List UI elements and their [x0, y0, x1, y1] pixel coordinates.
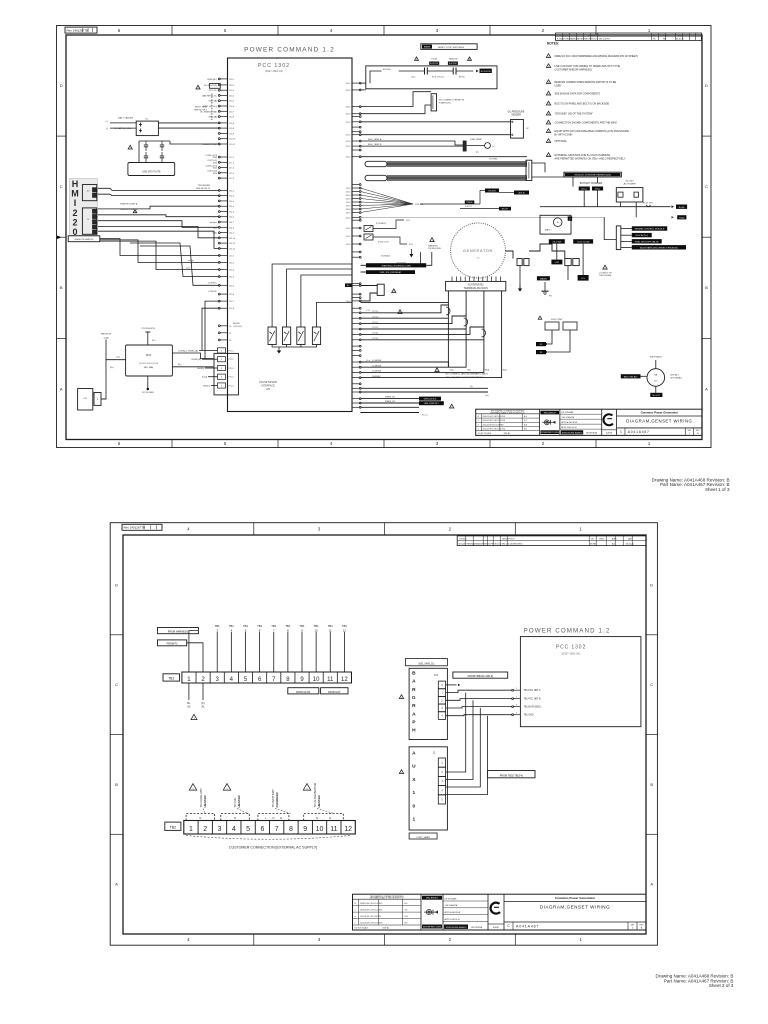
svg-text:(1) 627-4 W1(1,2,3): (1) 627-4 W1(1,2,3) — [139, 363, 158, 365]
wire from-harness to TB1 cell1 — [189, 631, 199, 672]
svg-text:B: B — [115, 782, 118, 787]
svg-text:(-): (-) — [106, 128, 108, 130]
bus wire label box — [499, 207, 511, 211]
svg-text:J17-4: J17-4 — [229, 173, 235, 175]
svg-text:(PCN OUT): (PCN OUT) — [378, 242, 389, 244]
wire alternator stem down — [655, 386, 657, 393]
svg-text:Rev 1401267TB: Rev 1401267TB — [67, 28, 89, 32]
dark pin tag B+_CB — [345, 283, 352, 287]
svg-text:1: 1 — [412, 817, 415, 823]
B+ bus wire — [540, 206, 671, 208]
down arrow at BCM — [409, 254, 413, 257]
svg-text:8: 8 — [287, 628, 289, 632]
triangle note engine senders — [603, 265, 608, 269]
svg-text:B(-): B(-) — [178, 364, 182, 366]
svg-text:J17-5: J17-5 — [229, 178, 235, 180]
label box TB2 — [165, 822, 181, 830]
svg-text:Cummins Power Generation: Cummins Power Generation — [641, 411, 679, 415]
svg-text:J20-8: J20-8 — [229, 117, 235, 119]
svg-text:B+(p): B+(p) — [202, 377, 207, 379]
svg-text:THE ENGINE: THE ENGINE — [599, 275, 612, 277]
svg-text:(B+): (B+) — [412, 77, 416, 79]
label box FROM AUX — [288, 688, 319, 694]
PCC right pin B+ bus — [352, 216, 360, 218]
svg-text:(4): (4) — [470, 386, 473, 388]
svg-text:J24-6: J24-6 — [229, 217, 235, 219]
revision table (sheet1 top right) — [556, 33, 702, 40]
wire DCN output A — [172, 353, 213, 359]
svg-text:DO1: DO1 — [406, 220, 411, 222]
svg-text:12V: 12V — [654, 381, 658, 383]
svg-text:CUST+(DO): CUST+(DO) — [206, 165, 218, 167]
company name header — [504, 901, 646, 903]
svg-text:5: 5 — [221, 386, 223, 388]
svg-text:B13: B13 — [213, 173, 218, 175]
svg-text:1: 1 — [648, 28, 651, 33]
svg-text:STARTER(+) SOLENOID CONN: STARTER(+) SOLENOID CONN — [382, 264, 412, 267]
svg-text:J26-9: J26-9 — [345, 213, 351, 215]
svg-text:R.M: R.M — [524, 424, 528, 426]
svg-text:GENCY STOP SWITCHES: GENCY STOP SWITCHES — [438, 47, 465, 49]
triangle note at HMI wires — [133, 210, 137, 213]
dark label GEN J-B VIO — [419, 397, 441, 401]
svg-text:CUSTOMER AND/OR HARNESS): CUSTOMER AND/OR HARNESS) — [555, 69, 592, 72]
svg-text:WITH RADIO: WITH RADIO — [650, 356, 663, 359]
svg-text:H: H — [72, 179, 79, 189]
svg-text:E: E — [329, 816, 331, 820]
arrow label fuel 1 — [546, 343, 548, 345]
wire J24 pin6 stub — [446, 684, 457, 686]
svg-text:8: 8 — [289, 826, 293, 833]
svg-text:J24-10: J24-10 — [229, 238, 236, 240]
svg-text:12: 12 — [341, 677, 348, 683]
battery charging alternator symbol — [647, 369, 665, 387]
svg-text:C: C — [620, 430, 623, 434]
svg-text:N: N — [199, 816, 201, 820]
svg-text:J24-8: J24-8 — [229, 227, 235, 229]
svg-text:ld(4): ld(4) — [213, 233, 218, 235]
svg-text:A: A — [705, 386, 708, 391]
svg-text:TB1: TB1 — [215, 624, 220, 628]
remote e-stop enclosure box — [366, 66, 497, 89]
note 3 triangle — [546, 80, 550, 84]
title block bottom row — [617, 427, 702, 429]
svg-text:TB1 PCC NET B: TB1 PCC NET B — [524, 699, 542, 701]
svg-text:B+(A): B+(A) — [679, 206, 685, 209]
svg-text:1: 1 — [189, 826, 193, 833]
spare output wires — [361, 387, 489, 389]
svg-text:A: A — [412, 751, 416, 757]
svg-text:GND (A): GND (A) — [209, 116, 218, 119]
svg-text:3: 3 — [516, 705, 517, 707]
PCC right pins alternator groups — [352, 312, 361, 379]
svg-text:2010-04 SH 2 ECO-58 REV: 2010-04 SH 2 ECO-58 REV — [360, 916, 382, 918]
svg-text:J20-5: J20-5 — [229, 101, 235, 103]
svg-text:J20-7: J20-7 — [229, 111, 235, 113]
svg-text:J19-3: J19-3 — [345, 244, 351, 246]
svg-text:RM: RM — [663, 39, 666, 41]
PCC right pins engine temp — [352, 140, 360, 142]
dark label low oil — [551, 260, 562, 265]
svg-text:A041A467: A041A467 — [516, 924, 539, 928]
svg-text:J20-1: J20-1 — [229, 79, 235, 81]
vertical wires from relay area up — [420, 252, 422, 265]
svg-text:Rev 1401267TB: Rev 1401267TB — [124, 526, 146, 530]
svg-text:PLC-1: PLC-1 — [422, 414, 429, 416]
svg-text:J24-11: J24-11 — [229, 243, 236, 245]
svg-text:"GROUND" (-B) OF THE SYSTEM": "GROUND" (-B) OF THE SYSTEM" — [555, 113, 594, 116]
svg-text:Sheet 2 of 3: Sheet 2 of 3 — [709, 983, 734, 988]
svg-text:COOL LVL SW: COOL LVL SW — [577, 242, 590, 244]
svg-text:RS485+(A): RS485+(A) — [188, 349, 198, 352]
svg-text:B+OUT: B+OUT — [653, 395, 661, 397]
svg-text:A: A — [115, 882, 118, 887]
dashed group brackets over TB2 — [186, 814, 343, 821]
svg-text:(B01_0488_01): (B01_0488_01) — [419, 663, 435, 665]
svg-text:B: B — [478, 416, 480, 418]
svg-text:TERMINAL BLOCKS: TERMINAL BLOCKS — [464, 286, 489, 290]
svg-text:N: N — [272, 816, 274, 820]
svg-text:AC POWER: AC POWER — [624, 183, 636, 186]
wire capacitor top rail — [139, 140, 170, 142]
svg-text:B: B — [60, 285, 63, 290]
warning triangle note 1 at J20 — [196, 85, 200, 89]
svg-text:GEN J-PWR RLY: GEN J-PWR RLY — [424, 403, 439, 405]
svg-text:CHKD: CHKD — [599, 539, 605, 541]
svg-text:(+): (+) — [106, 121, 109, 123]
svg-text:APPD A.GEORGE: APPD A.GEORGE — [561, 421, 577, 424]
note 9 triangle — [546, 139, 550, 143]
svg-text:4: 4 — [441, 715, 443, 718]
svg-text:J26-5: J26-5 — [345, 199, 351, 201]
svg-text:J20-4: J20-4 — [229, 95, 235, 97]
svg-text:CT22-2: CT22-2 — [372, 327, 378, 329]
svg-text:DATE: DATE — [628, 538, 633, 541]
DCN PCCNET device box — [126, 345, 173, 376]
svg-text:B 162267 REDRAWN AND REVISED P: B 162267 REDRAWN AND REVISED PER ECO |||… — [459, 542, 523, 545]
svg-text:FROM TB02 TB(3-4): FROM TB02 TB(3-4) — [500, 774, 523, 777]
svg-text:3: 3 — [216, 677, 220, 683]
svg-text:5: 5 — [441, 799, 443, 802]
svg-text:DO NOT SCALE: DO NOT SCALE — [355, 926, 369, 929]
alternator CT bundle wires — [361, 313, 425, 340]
wire K1 to PCC pin GND — [158, 127, 219, 129]
triangle note lower — [398, 310, 402, 314]
svg-text:B 162267 REDRAWN AND REVISED P: B 162267 REDRAWN AND REVISED PER ECO, SH… — [557, 38, 610, 41]
svg-text:APPD 2008-10-16: APPD 2008-10-16 — [561, 426, 576, 429]
svg-text:INFORMATION AND IS THE PROPERT: INFORMATION AND IS THE PROPERTY OF — [370, 897, 404, 900]
svg-text:HEATER: HEATER — [203, 795, 207, 808]
svg-text:L1-SENSE: L1-SENSE — [372, 360, 382, 362]
wires AC supply down — [620, 202, 622, 207]
oil pressure sender box — [511, 120, 524, 139]
svg-text:2009-02 SH 1-3 ECO-51 RVD: 2009-02 SH 1-3 ECO-51 RVD — [360, 909, 383, 911]
svg-text:B: B — [705, 285, 708, 290]
svg-text:6: 6 — [260, 826, 264, 833]
svg-text:B: B — [641, 928, 643, 930]
wire relay commons bottom — [272, 345, 316, 348]
svg-text:REMOVE JUMPER WHEN REMOTE SWIT: REMOVE JUMPER WHEN REMOTE SWITCH IS TO B… — [555, 81, 617, 84]
svg-text:2: 2 — [201, 677, 205, 683]
vertical wires to AUX101 — [446, 693, 488, 795]
wire from-f2 to TB1 cell2 — [187, 643, 203, 672]
wire K1 to PCC pin B+ — [158, 122, 219, 124]
wire to ECS return label — [456, 70, 473, 72]
wire alternator stem up — [655, 360, 657, 369]
PCC right pin fuel bundle top — [352, 156, 360, 158]
svg-text:K1: K1 — [146, 119, 149, 121]
bus break symbol — [646, 205, 650, 207]
load group annotations above TB2 — [189, 782, 321, 807]
svg-text:GR DRURJA: GR DRURJA — [586, 432, 598, 435]
svg-text:J19-2: J19-2 — [345, 236, 351, 238]
note 8 triangle — [546, 129, 550, 133]
svg-text:CHASSIS GND: CHASSIS GND — [202, 143, 217, 146]
wire caps into mounting plate — [145, 161, 147, 164]
svg-text:4: 4 — [231, 628, 233, 632]
remote start connector box — [431, 94, 436, 111]
aux breaker box — [377, 284, 384, 295]
company name header — [617, 415, 702, 417]
svg-text:2: 2 — [542, 28, 545, 33]
wires into K1 from left — [110, 122, 136, 124]
svg-text:B: B — [697, 433, 699, 435]
svg-text:LOCAL: LOCAL — [431, 58, 438, 61]
svg-text:b: b — [97, 399, 99, 401]
svg-text:11: 11 — [329, 628, 332, 632]
wire keyswitch 2 — [361, 105, 432, 114]
svg-text:DR S.KUMAR: DR S.KUMAR — [445, 897, 458, 900]
svg-text:E-STOP: E-STOP — [430, 63, 439, 65]
svg-text:1: 1 — [355, 909, 356, 911]
svg-text:FROM F2: FROM F2 — [167, 643, 179, 646]
svg-text:B-(A): B-(A) — [679, 216, 684, 219]
svg-text:a"B: a"B — [83, 398, 87, 400]
capacitor C3 — [144, 155, 148, 157]
svg-text:2: 2 — [478, 429, 479, 431]
svg-text:2: 2 — [72, 217, 77, 227]
wire PLC stub — [361, 412, 420, 414]
zigzag wire breaker feed — [529, 244, 565, 259]
svg-text:HEATER: HEATER — [317, 795, 321, 808]
svg-text:CUST(+D): CUST(+D) — [207, 160, 217, 162]
svg-text:J20-9: J20-9 — [345, 107, 351, 109]
svg-text:TB1: TB1 — [285, 624, 290, 628]
svg-text:J25-7: J25-7 — [229, 301, 235, 303]
switch S1 local e-stop — [399, 70, 425, 72]
svg-text:1: 1 — [579, 937, 582, 942]
title block signature rows — [601, 409, 603, 435]
wires level switches down — [556, 244, 558, 260]
svg-text:08-10-16: 08-10-16 — [676, 39, 684, 41]
svg-text:3: 3 — [221, 368, 223, 370]
svg-text:C: C — [705, 184, 708, 189]
svg-text:A: A — [412, 711, 416, 717]
wire grey B+ bus long — [361, 216, 605, 218]
svg-text:(Rx): (Rx) — [110, 367, 114, 369]
vertical wire HMI RS — [105, 340, 107, 360]
svg-text:BA: BA — [654, 374, 657, 377]
charger terminal b2 — [592, 187, 603, 191]
wire name labels alternator bundle — [372, 311, 382, 378]
svg-text:J20-8: J20-8 — [229, 128, 235, 130]
svg-text:CONNECTION SHOWN COMPONENTS AR: CONNECTION SHOWN COMPONENTS ARE THE 60HZ — [555, 122, 618, 125]
svg-text:P: P — [412, 719, 416, 725]
svg-text:21: 21 — [229, 333, 232, 335]
sheet id label box top-left — [122, 524, 162, 530]
svg-text:4: 4 — [516, 713, 517, 715]
svg-text:M: M — [71, 189, 79, 199]
svg-text:INTERFACE: INTERFACE — [261, 385, 275, 388]
svg-text:J24-1: J24-1 — [229, 190, 235, 192]
svg-text:FROM ALT: FROM ALT — [328, 691, 341, 694]
svg-text:J25-4: J25-4 — [229, 277, 235, 279]
svg-text:DO NOT SCALE: DO NOT SCALE — [478, 432, 492, 435]
drawing sheet outer border — [110, 523, 657, 946]
svg-text:ECS-RTN: ECS-RTN — [481, 71, 491, 73]
svg-text:FB: FB — [549, 296, 552, 298]
svg-text:a(2): a(2) — [186, 268, 190, 270]
dashed swag under TB2 — [186, 836, 350, 840]
svg-text:5: 5 — [224, 441, 227, 446]
svg-text:S.K: S.K — [405, 909, 409, 911]
svg-text:CONT_HARN: CONT_HARN — [416, 836, 430, 839]
svg-text:APPD 2008-10-16: APPD 2008-10-16 — [445, 918, 460, 921]
J24 pin cells — [438, 681, 445, 719]
svg-text:CHKD: CHKD — [663, 35, 669, 37]
svg-text:OPTIONAL: OPTIONAL — [555, 140, 568, 143]
svg-text:9: 9 — [303, 826, 307, 833]
caption under sheet 1 — [652, 477, 730, 492]
wire DCN B+ stub — [147, 332, 149, 345]
title block outline — [476, 409, 702, 435]
alternator sense lower wires — [361, 362, 449, 367]
svg-text:MAINS: MAINS — [540, 277, 547, 280]
svg-text:CHK V.MEHTA: CHK V.MEHTA — [561, 416, 574, 419]
svg-text:B: B — [412, 671, 416, 677]
charger terminal b1 — [579, 187, 590, 191]
PCC 1302 block sheet2 — [520, 637, 641, 727]
note 2 triangle — [546, 64, 550, 68]
wire oil pressure sender 2 — [361, 134, 511, 136]
remote HMI label box — [68, 236, 100, 242]
title block angle-projection cell — [442, 894, 444, 930]
dark label press — [465, 201, 475, 204]
svg-text:J20-4: J20-4 — [345, 114, 351, 116]
wire CB aux 2 — [361, 293, 378, 301]
svg-text:J19-1: J19-1 — [345, 228, 351, 230]
PCC right pins network fan J26 — [345, 187, 361, 214]
svg-text:CT21-1: CT21-1 — [372, 311, 378, 313]
note 5 triangle — [546, 101, 550, 105]
battery relay box K1 — [136, 121, 158, 136]
svg-text:3: 3 — [318, 937, 321, 942]
svg-text:ALT-B: ALT-B — [519, 192, 525, 195]
svg-text:3RD ANGLE: 3RD ANGLE — [544, 411, 557, 414]
switch S2 remote e-stop — [427, 70, 453, 72]
svg-text:B+ (E-STOP): B+ (E-STOP) — [204, 85, 217, 87]
svg-text:[F]: [F] — [202, 702, 205, 705]
edge connector pin cell — [94, 393, 101, 406]
svg-text:J22-7: J22-7 — [345, 122, 351, 124]
svg-text:U: U — [412, 764, 416, 770]
svg-text:D: D — [650, 582, 653, 587]
svg-text:A1: A1 — [201, 706, 205, 709]
svg-text:6: 6 — [118, 441, 121, 446]
svg-text:5: 5 — [224, 28, 227, 33]
svg-text:2: 2 — [516, 697, 517, 699]
TB1 wire top labels — [215, 624, 348, 632]
svg-text:D: D — [115, 582, 118, 587]
warning triangle note 2 — [128, 145, 132, 149]
drawing sheet inner border — [123, 535, 646, 934]
revision history table — [538, 409, 540, 435]
svg-text:HMI RS-W: HMI RS-W — [101, 334, 112, 336]
triangle note at DO — [430, 238, 435, 242]
label box TB1 — [163, 674, 180, 681]
svg-text:G: G — [412, 695, 416, 701]
svg-text:2: 2 — [203, 826, 207, 833]
svg-text:RUN (B+): RUN (B+) — [207, 79, 217, 81]
note 7 triangle — [546, 120, 550, 124]
wire DO2 — [373, 237, 407, 244]
svg-text:BATT CABLES: BATT CABLES — [118, 117, 133, 120]
svg-text:A.G: A.G — [612, 542, 616, 545]
svg-text:B: B — [355, 903, 357, 905]
svg-text:J20-11: J20-11 — [229, 144, 236, 146]
svg-text:CUST(+D): CUST(+D) — [207, 171, 217, 173]
svg-text:+: + — [557, 221, 559, 225]
svg-text:J20-6: J20-6 — [229, 106, 235, 108]
svg-text:10: 10 — [313, 677, 320, 683]
svg-text:8: 8 — [286, 677, 290, 683]
svg-text:START (2X): START (2X) — [439, 102, 451, 105]
wires J25 up to PCC lower-left pins — [202, 308, 219, 350]
ground symbol at breaker — [519, 285, 521, 289]
svg-text:J24-3: J24-3 — [229, 201, 235, 203]
svg-text:FROM AUX1: FROM AUX1 — [296, 691, 311, 694]
svg-text:22: 22 — [229, 340, 232, 342]
PCC left pins group 7 lower — [218, 325, 232, 342]
svg-text:J25-5: J25-5 — [229, 285, 235, 287]
svg-text:TB1: TB1 — [342, 624, 347, 628]
svg-text:(0327-1601-01): (0327-1601-01) — [562, 652, 581, 656]
svg-text:Cummins Power Generation: Cummins Power Generation — [555, 896, 595, 900]
svg-text:12: 12 — [344, 826, 352, 833]
svg-text:RS485/PCCNET A: RS485/PCCNET A — [120, 203, 138, 206]
svg-text:1: 1 — [516, 688, 517, 690]
svg-text:J20-2: J20-2 — [229, 85, 235, 87]
svg-text:J26-2: J26-2 — [345, 188, 351, 190]
svg-text:INTERPRET DWG: INTERPRET DWG — [423, 927, 442, 929]
injector wire bundle 1 — [387, 161, 527, 163]
PCC 1302 controller block U1 — [228, 58, 353, 412]
svg-text:2010-04 SH 2 ECO-58 REV: 2010-04 SH 2 ECO-58 REV — [483, 424, 505, 426]
svg-text:3: 3 — [436, 441, 439, 446]
svg-text:C: C — [115, 682, 118, 687]
svg-text:PCC B+: PCC B+ — [209, 90, 218, 92]
svg-text:B: B — [650, 782, 653, 787]
svg-text:EMER: EMER — [424, 47, 431, 49]
svg-text:P25-3: P25-3 — [228, 368, 233, 370]
svg-text:RELAY: RELAY — [233, 322, 241, 325]
svg-text:6: 6 — [258, 677, 262, 683]
battery corner tag — [568, 216, 572, 220]
svg-text:D: D — [60, 83, 63, 88]
aux DO box 1 — [364, 226, 373, 232]
svg-text:DIAGRAM,GENSET WIRING: DIAGRAM,GENSET WIRING — [540, 905, 610, 910]
PCC right pins bottom group — [352, 387, 361, 408]
